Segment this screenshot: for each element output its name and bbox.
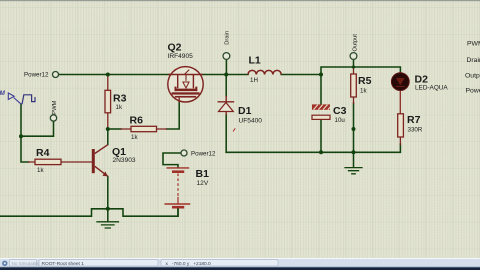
svg-text:R7: R7: [407, 114, 421, 126]
wire PWM generator down to node: [20, 104, 22, 136]
wire Output terminal stub: [353, 59, 355, 67]
ground symbol left: [97, 222, 119, 228]
D1 model marker: [233, 128, 235, 131]
terminal Power12 left: [53, 72, 59, 78]
junction R5 wire: [352, 127, 356, 131]
wire node down to R4: [21, 136, 29, 162]
svg-text:1k: 1k: [37, 167, 44, 174]
wire ground stub under R5: [353, 152, 355, 167]
inductor L1: [248, 70, 281, 74]
svg-text:1k: 1k: [116, 104, 123, 111]
svg-text:R5: R5: [358, 75, 372, 87]
wire bottom ground rail: [0, 208, 178, 216]
wire B1 minus to ground rail: [177, 208, 179, 216]
svg-text:PWM: PWM: [0, 90, 6, 97]
wire D1 bottom to ground rail: [225, 115, 227, 152]
wire battery Power12 terminal to B1 plus: [163, 153, 181, 167]
svg-text:R4: R4: [36, 147, 50, 159]
junction R3 top: [106, 73, 110, 77]
svg-text:1k: 1k: [131, 134, 138, 141]
svg-text:LED-AQUA: LED-AQUA: [415, 85, 448, 92]
svg-text:Drain: Drain: [467, 57, 480, 64]
diode D2 lead: [399, 73, 401, 114]
junction L1 output node: [319, 73, 323, 77]
terminal Output: [350, 53, 357, 60]
transistor Q1: [92, 145, 108, 177]
terminal PWM: [50, 115, 56, 121]
resistor R3 pins: [107, 75, 109, 130]
svg-text:330R: 330R: [408, 126, 423, 133]
wire node to PWM terminal: [21, 121, 54, 136]
svg-text:Drain: Drain: [225, 31, 231, 45]
junction C3 ground: [319, 150, 323, 154]
terminal Power12 battery: [181, 150, 187, 156]
wire D1 top: [225, 75, 227, 97]
wire L1 right to node: [281, 74, 321, 76]
resistor R3: [105, 90, 111, 113]
svg-text:1k: 1k: [360, 87, 367, 94]
junction R5 ground: [352, 150, 356, 154]
wire power rail from Power12 terminal to L1: [59, 74, 249, 76]
resistor R4: [35, 159, 61, 164]
wire Q1 emitter to ground rail: [107, 177, 109, 209]
svg-text:R3: R3: [113, 93, 127, 105]
wire C3 top: [320, 75, 322, 105]
svg-text:Output: Output: [465, 73, 480, 80]
resistor R7 pins: [399, 137, 401, 145]
resistor R4 pins: [29, 161, 95, 163]
svg-text:Output: Output: [352, 34, 358, 52]
ground symbol output: [345, 168, 362, 174]
svg-text:R6: R6: [130, 115, 144, 127]
wire Drain terminal stub: [225, 59, 227, 74]
svg-text:B1: B1: [196, 168, 210, 180]
svg-text:1H: 1H: [250, 77, 258, 84]
svg-text:x -760.0 y +2180.0: x -760.0 y +2180.0: [166, 261, 212, 267]
svg-text:D1: D1: [238, 105, 252, 117]
PWM generator: [0, 90, 35, 104]
svg-text:PWM: PWM: [52, 100, 58, 114]
resistor R7: [398, 114, 404, 137]
svg-text:C3: C3: [333, 105, 347, 117]
diode D1: [218, 96, 235, 115]
resistor R6: [131, 126, 157, 131]
terminal Drain: [223, 53, 230, 60]
svg-text:2N3903: 2N3903: [113, 157, 136, 164]
wire R6 right to Q2 gate: [167, 99, 180, 129]
status bar: [0, 258, 480, 270]
resistor R6 pins: [121, 128, 167, 130]
wire ground stub under Q1: [107, 209, 109, 221]
svg-text:ROOT-Root sheet 1: ROOT-Root sheet 1: [42, 261, 85, 267]
wire C3 bottom: [320, 120, 322, 153]
svg-text:Q2: Q2: [168, 42, 182, 54]
svg-text:No Simulating: No Simulating: [12, 261, 41, 266]
svg-text:Power12: Power12: [191, 150, 216, 157]
resistor R5: [351, 74, 357, 97]
svg-text:L1: L1: [249, 55, 261, 67]
junction emitter ground: [106, 207, 110, 211]
wire node to R6 left: [108, 128, 121, 130]
svg-text:12V: 12V: [197, 180, 209, 187]
svg-text:IRF4905: IRF4905: [168, 53, 194, 60]
battery B1: [165, 168, 191, 207]
wire output ground rail: [226, 144, 400, 152]
resistor R5 pins: [353, 68, 355, 104]
wire R5 bottom to ground rail: [353, 103, 355, 152]
MOSFET Q2: [168, 67, 203, 103]
junction R3 R6 Q1: [106, 127, 110, 131]
junction PWM node: [19, 134, 23, 138]
junction Output node: [352, 65, 355, 68]
junction Drain node: [224, 73, 228, 77]
LED D2: [391, 73, 409, 91]
svg-text:UF5400: UF5400: [239, 117, 263, 124]
wire Q1 collector vertical: [107, 129, 109, 145]
capacitor C3: [312, 104, 331, 119]
svg-text:PWM: PWM: [467, 41, 480, 48]
wire jog node to output rail and LED: [321, 67, 400, 75]
svg-text:Power12: Power12: [466, 88, 480, 95]
svg-text:Power12: Power12: [24, 71, 49, 78]
svg-text:10u: 10u: [335, 117, 346, 124]
